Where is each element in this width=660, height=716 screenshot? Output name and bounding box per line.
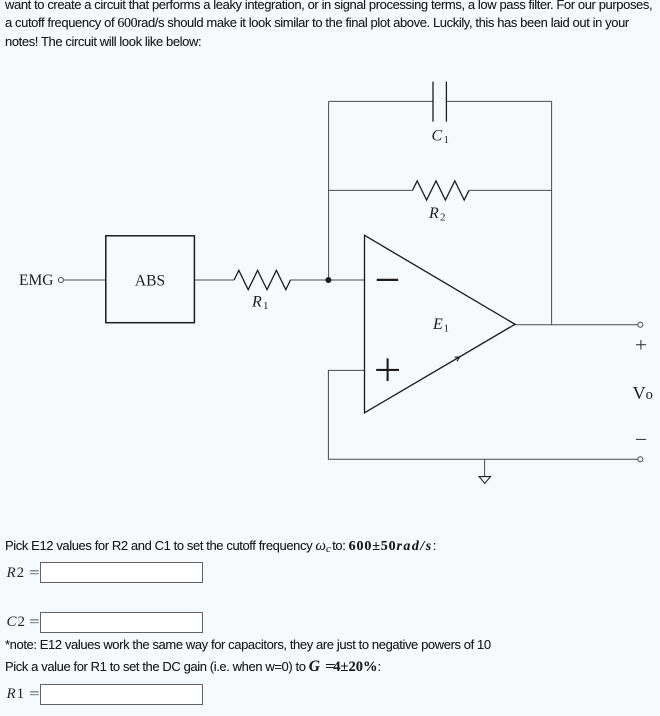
svg-text:R: R: [428, 205, 439, 222]
svg-text:R: R: [251, 294, 262, 311]
svg-text:C: C: [432, 128, 443, 145]
svg-text:EMG: EMG: [19, 272, 53, 289]
svg-text:1: 1: [444, 323, 450, 335]
svg-text:o: o: [646, 387, 653, 403]
svg-text:V: V: [633, 383, 646, 403]
svg-text:E: E: [432, 316, 443, 333]
svg-text:ABS: ABS: [135, 272, 165, 289]
svg-text:1: 1: [444, 134, 450, 146]
svg-text:2: 2: [440, 212, 446, 224]
svg-text:1: 1: [263, 300, 269, 312]
